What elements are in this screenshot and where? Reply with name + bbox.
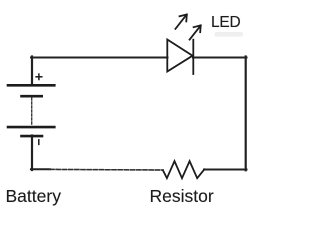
- battery B1: long positive plate: [8, 84, 54, 87]
- wire: right vertical side: [245, 57, 247, 171]
- label: Battery: [6, 186, 61, 207]
- label: LED: [211, 14, 241, 32]
- wire: bottom right from corner to resistor: [204, 169, 247, 171]
- battery B1: short negative plate: [22, 135, 43, 138]
- wire: top from battery + to LED anode: [31, 57, 168, 59]
- wire: bottom left from battery to resistor (faded/dashed look): [50, 168, 163, 171]
- LED D1: emission arrow 2: [190, 25, 201, 39]
- LED D1: triangle (anode): [167, 40, 192, 72]
- battery B1: dashed cell connector: [31, 98, 33, 125]
- battery - polarity mark: [38, 140, 40, 145]
- battery + polarity mark: [36, 74, 42, 79]
- wire: bottom-left vertical from battery negative plate: [31, 136, 33, 171]
- battery B1: short plate below positive: [22, 95, 42, 98]
- wire: top-left vertical down to battery positive plate: [31, 57, 33, 86]
- battery B1: long lower plate: [8, 126, 54, 129]
- wire: bottom left solid stub at corner: [31, 168, 50, 170]
- LED D1: cathode bar: [192, 40, 194, 74]
- LED D1: emission arrow 1: [175, 15, 186, 29]
- artifact: faint ghost smudge under LED label: [215, 32, 244, 37]
- resistor R1: zigzag: [163, 161, 204, 178]
- label: Resistor: [150, 186, 214, 207]
- wire: LED cathode to top-right corner: [193, 57, 247, 59]
- wire: bottom left gray underlay: [50, 168, 163, 171]
